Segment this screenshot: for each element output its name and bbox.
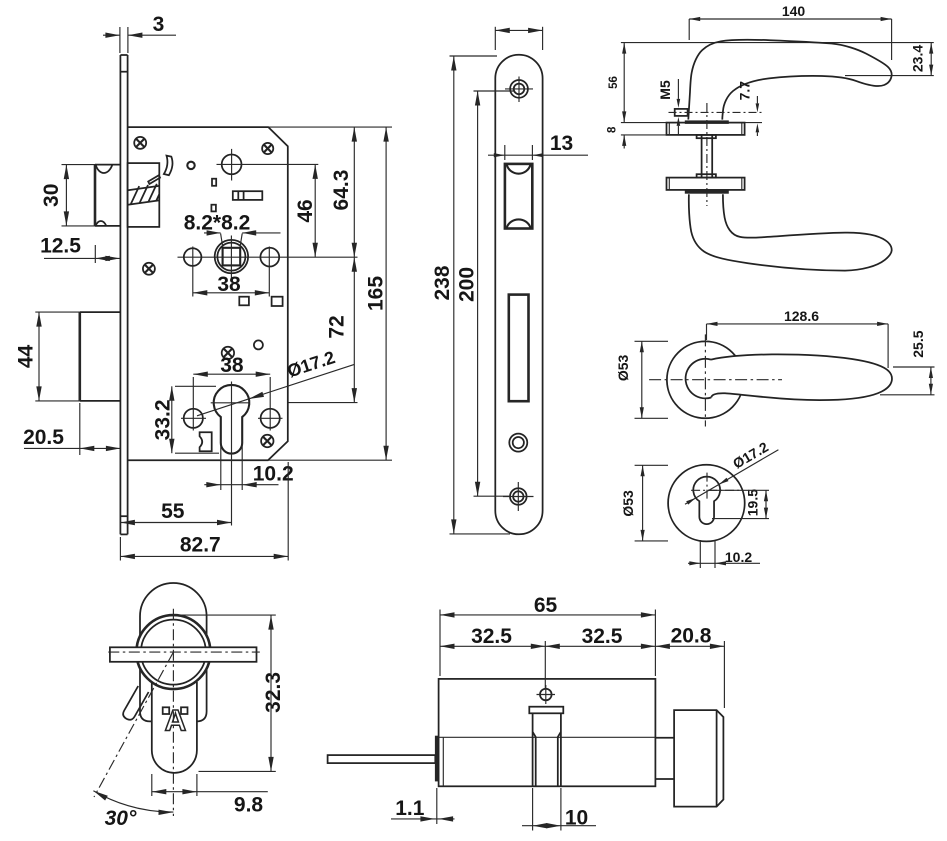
leader diameter 17.2 rosette <box>685 439 778 505</box>
right hole follower row <box>260 247 279 297</box>
leader diameter 17.2 body <box>197 347 354 416</box>
dimension 165 <box>365 127 389 460</box>
M5 grub screw <box>669 109 763 116</box>
case top extension line <box>268 126 392 128</box>
dimension 13 <box>488 132 588 160</box>
svg-text:30°: 30° <box>105 807 137 830</box>
svg-text:1.1: 1.1 <box>395 797 425 820</box>
curved wedge piece <box>164 156 173 176</box>
svg-text:7.7: 7.7 <box>736 81 752 101</box>
follower axis line <box>178 256 358 258</box>
small square right below follower <box>272 297 283 306</box>
euro profile cutout rosette <box>693 477 720 525</box>
dimension 12.5 <box>40 235 120 264</box>
spindle <box>697 103 716 206</box>
svg-text:82.7: 82.7 <box>180 534 221 557</box>
dimension 200 <box>455 91 514 496</box>
faceplate bottom screw <box>503 482 534 511</box>
latch spool cutout <box>505 164 532 229</box>
dimension 238 <box>431 56 510 534</box>
cylinder profile hole <box>211 382 250 526</box>
svg-text:238: 238 <box>431 265 454 300</box>
upper handle outline top view <box>688 40 891 120</box>
svg-text:Ø17.2: Ø17.2 <box>285 347 338 381</box>
dimension diameter 53 handle <box>615 341 668 418</box>
dimension 33.2 <box>151 386 219 453</box>
svg-text:128.6: 128.6 <box>784 308 819 324</box>
key blade <box>328 755 436 763</box>
rosette circle <box>668 465 745 542</box>
upper handle base collar <box>685 120 729 124</box>
30 degree arc <box>93 791 173 830</box>
faceplate top screw <box>505 77 533 103</box>
cam slot <box>529 707 563 787</box>
latch spring <box>128 184 159 205</box>
end view center lines <box>94 609 260 816</box>
svg-text:3: 3 <box>153 13 165 36</box>
screw mid-left <box>143 263 155 275</box>
latch guide box <box>128 163 160 227</box>
euro profile stem end view <box>152 682 197 773</box>
dimension 44 <box>15 312 80 401</box>
auxiliary hole <box>509 434 527 452</box>
neck ring arc <box>686 359 712 399</box>
dimension 46 <box>294 164 318 257</box>
svg-text:32.5: 32.5 <box>582 625 623 648</box>
dimension 30 <box>40 165 95 226</box>
svg-text:65: 65 <box>534 594 558 617</box>
small rect lower <box>211 205 216 212</box>
svg-text:A: A <box>165 705 187 738</box>
thumbturn wing bar <box>110 647 257 662</box>
svg-text:19.5: 19.5 <box>745 489 761 516</box>
pin circle <box>187 162 194 169</box>
svg-text:56: 56 <box>608 76 620 89</box>
deadbolt cutout <box>509 295 529 402</box>
dimension 64.3 <box>330 127 357 257</box>
case bottom extension line <box>268 459 392 461</box>
thumbturn neck side view <box>655 738 674 779</box>
svg-text:32.3: 32.3 <box>262 672 285 713</box>
small square left below follower <box>239 297 249 306</box>
svg-text:9.8: 9.8 <box>234 794 264 817</box>
svg-text:200: 200 <box>455 267 478 302</box>
rosette center lines <box>691 473 742 501</box>
faceplate side strip <box>120 55 127 534</box>
keyhole bracket piece <box>200 432 212 451</box>
cylinder body side view <box>439 679 656 786</box>
dimension 20.8 <box>655 624 724 708</box>
cylinder face circles <box>136 615 210 689</box>
dimension 10.2 rosette <box>688 540 760 568</box>
svg-text:23.4: 23.4 <box>910 45 926 72</box>
dimension 128.6 <box>707 308 889 368</box>
dimension 38 lower <box>193 354 270 377</box>
dimension 32.3 <box>179 615 285 771</box>
svg-text:Ø53: Ø53 <box>620 490 636 517</box>
screw top-left <box>134 137 146 149</box>
svg-text:10.2: 10.2 <box>725 549 752 565</box>
plain circle above cylinder <box>254 340 263 349</box>
svg-text:12.5: 12.5 <box>40 235 81 258</box>
dimension 8 <box>607 123 667 149</box>
svg-text:Ø17.2: Ø17.2 <box>730 439 771 472</box>
dimension 32.5 left <box>440 625 545 649</box>
svg-text:33.2: 33.2 <box>151 399 174 440</box>
dimension diameter 53 rosette <box>620 465 668 541</box>
svg-text:8: 8 <box>607 126 619 133</box>
dimension 7.7 <box>736 81 762 136</box>
dimension 56 <box>608 43 627 123</box>
svg-text:10.2: 10.2 <box>253 463 294 486</box>
dimension 9.8 <box>152 774 268 817</box>
dimension 65 <box>440 594 655 676</box>
dimension 8.2*8.2 <box>184 212 281 247</box>
follower hub with square 8.2 <box>215 236 248 280</box>
dimension 72 <box>289 257 358 402</box>
lower rose slab <box>667 178 745 190</box>
small rect upper <box>212 179 216 186</box>
dimension 55 <box>120 500 231 525</box>
dimension 23.4 <box>845 43 934 76</box>
dimension 20.5 <box>23 403 120 455</box>
rose circle handle front view <box>667 341 744 418</box>
svg-text:20.5: 20.5 <box>23 426 64 449</box>
lock case outline <box>128 127 288 460</box>
svg-text:13: 13 <box>550 132 573 155</box>
dimension 25.5 <box>880 330 935 395</box>
top hub circle <box>217 149 319 181</box>
dimension 10.2 lower body <box>204 440 293 490</box>
svg-text:8.2*8.2: 8.2*8.2 <box>184 212 251 235</box>
screw above cylinder <box>222 347 234 359</box>
lower handle outline top view <box>689 194 892 270</box>
svg-text:25.5: 25.5 <box>910 330 926 357</box>
dimension 38 upper <box>193 273 269 296</box>
center lines handle front <box>649 334 782 426</box>
dimension 82.7 <box>120 462 288 561</box>
upper rose slab <box>667 123 745 135</box>
thumbturn knob end view <box>140 583 207 721</box>
svg-text:72: 72 <box>326 315 349 338</box>
faceplate width dimension arrows <box>495 27 542 50</box>
svg-text:140: 140 <box>782 3 806 19</box>
dimension 32.5 right <box>545 625 655 689</box>
cylinder fixing screw hole <box>537 685 556 704</box>
svg-text:M5: M5 <box>657 80 673 100</box>
lower handle base collar <box>685 190 729 194</box>
faceplate front view outline <box>495 55 542 535</box>
right hole cylinder row <box>258 377 283 431</box>
left hole cylinder row <box>181 377 206 431</box>
left hole follower row <box>184 247 202 297</box>
screw bottom-right <box>261 435 273 447</box>
svg-text:32.5: 32.5 <box>471 625 512 648</box>
deadbolt <box>80 312 121 401</box>
haefele logo <box>163 705 188 738</box>
thumbturn knob side view <box>674 710 723 807</box>
cylinder clip plate 1.1 <box>435 736 439 782</box>
dimension 140 <box>689 3 891 60</box>
screw top-right <box>262 143 273 154</box>
svg-text:38: 38 <box>220 354 244 377</box>
lever handle front view <box>711 354 892 400</box>
latch lever <box>148 175 160 184</box>
latch bolt <box>95 165 120 226</box>
svg-text:55: 55 <box>161 500 185 523</box>
top view common extension line <box>621 42 934 44</box>
svg-text:46: 46 <box>294 199 317 222</box>
svg-text:Ø53: Ø53 <box>615 354 631 381</box>
svg-text:64.3: 64.3 <box>330 170 353 211</box>
dimension 19.5 <box>708 489 769 519</box>
dimension 3 (faceplate thickness) <box>103 13 176 53</box>
slotted bar <box>233 191 262 200</box>
dimension 10 <box>522 788 596 831</box>
svg-text:30: 30 <box>40 184 63 207</box>
svg-text:20.8: 20.8 <box>671 624 712 647</box>
thumbturn indicator tab <box>123 686 148 720</box>
label M5 with arrows <box>657 79 680 135</box>
svg-text:165: 165 <box>365 276 388 311</box>
dimension 1.1 <box>391 788 455 824</box>
svg-text:44: 44 <box>15 345 38 369</box>
